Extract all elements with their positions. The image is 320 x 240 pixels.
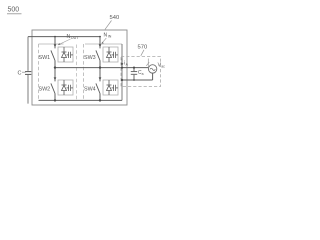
wire SW2 bottom [54,94,56,101]
capacitor Ca branch [131,68,137,80]
arrow into SW4 [99,77,102,80]
svg-text:a: a [142,72,144,76]
AC source Vac [146,59,157,81]
wire SW2 top [54,68,56,82]
switch SW1 blade [51,50,55,60]
svg-text:SW2: SW2 [39,87,51,93]
svg-text:570: 570 [138,45,148,51]
arrow into SW3 [99,44,102,47]
svg-text:SW1: SW1 [39,55,51,61]
label C [18,71,26,77]
svg-text:IN: IN [108,35,112,39]
left input wire [27,37,29,71]
svg-text:C: C [18,71,22,77]
svg-text:540: 540 [110,15,120,21]
junction node dots [54,36,135,102]
diode D1 [62,47,67,62]
label Vac [158,63,165,69]
diode D4 [107,80,112,95]
arrow into SW2 [54,77,57,80]
wire SW4 top [99,68,101,82]
svg-text:500: 500 [8,7,20,14]
capacitor in SW1 box [67,52,74,58]
wire SW1 top [54,37,56,49]
diode D3 [107,47,112,62]
capacitor in SW2 box [67,85,74,91]
node label NIN [101,33,111,44]
SW1 snubber box [58,47,73,62]
label Ca [138,70,144,76]
right leg dashed box [84,44,123,100]
svg-text:ac: ac [161,64,165,68]
SW3 snubber box [103,47,118,62]
mid output wire [55,67,148,69]
SW2 snubber box [58,80,73,95]
return wire [122,79,153,81]
capacitor in SW3 box [112,52,119,58]
wire SW3 bottom [99,61,101,68]
svg-text:SW3: SW3 [84,55,96,61]
wire SW1 bottom [54,61,56,68]
label 540 [105,15,119,29]
SW4 snubber box [103,80,118,95]
left leg dashed box [39,44,77,100]
bottom rail wire [39,99,123,101]
switch SW3 blade [96,50,100,60]
right vertical wire [121,44,123,100]
capacitor C plates [25,71,31,73]
node label NOUT [58,34,79,45]
label 570 [138,45,148,56]
svg-text:OUT: OUT [71,36,79,40]
top rail wire NOUT [28,36,100,38]
svg-text:SW4: SW4 [84,87,96,93]
switch SW4 blade [96,83,100,93]
arrow into SW1 [54,44,57,47]
figure label 500 [7,7,22,14]
rectifier block box 540 [32,30,127,105]
switch SW2 blade [51,83,55,93]
capacitor in SW4 box [112,85,119,91]
diode D2 [62,80,67,95]
wire SW3 top [99,37,101,49]
source block dashed box 570 [121,57,161,87]
left input wire lower [27,75,29,104]
current arrow iA [121,59,129,67]
wire SW4 bottom [99,94,101,101]
